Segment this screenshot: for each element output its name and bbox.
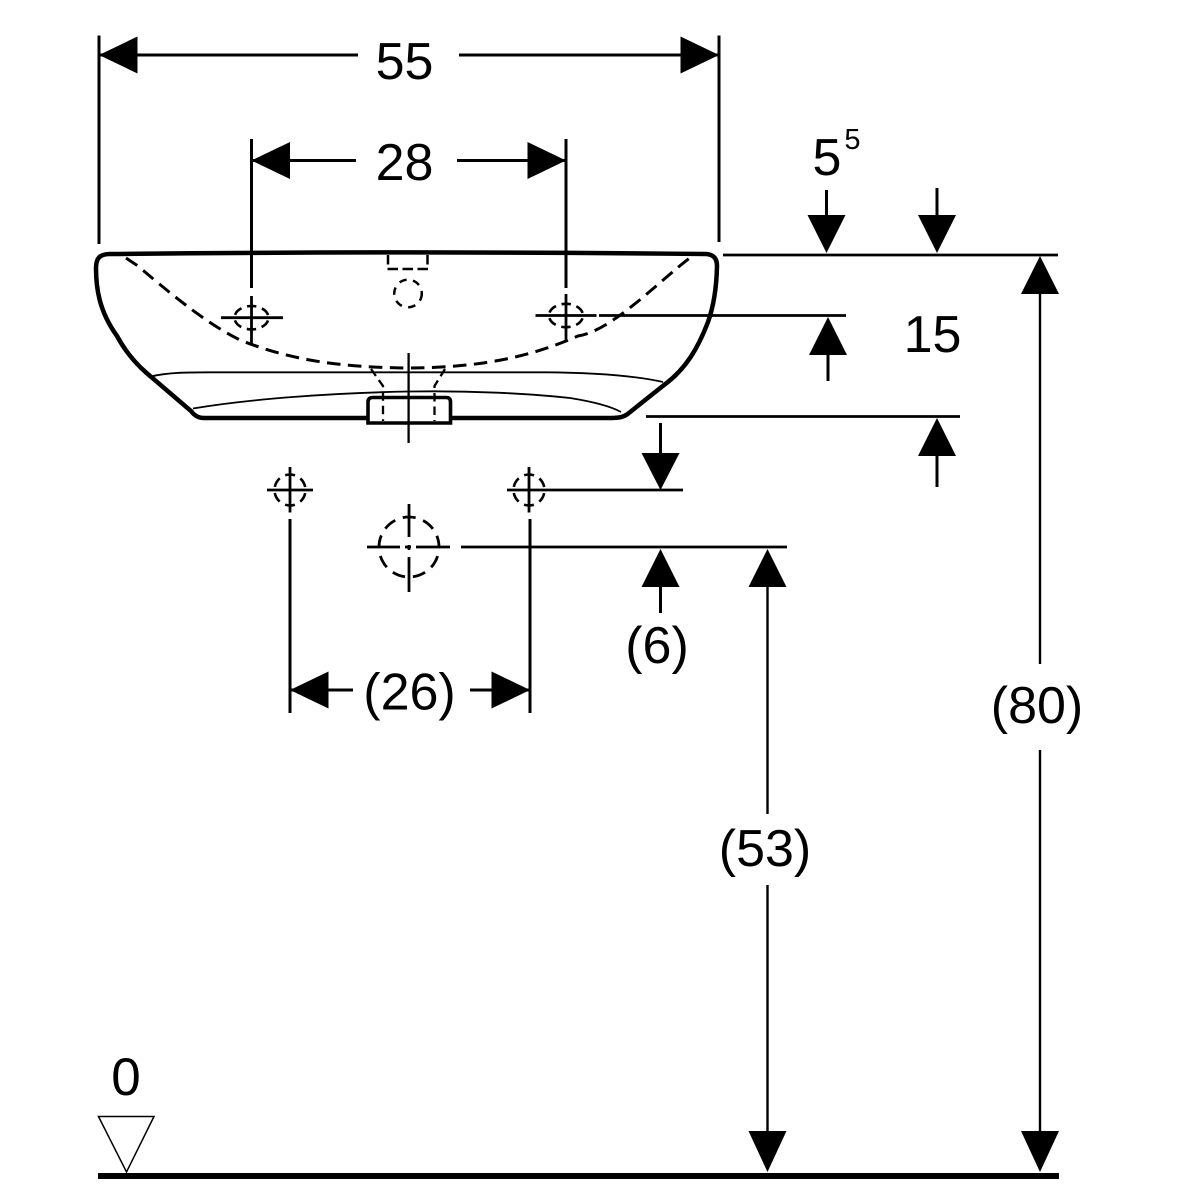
dimension 6 lower arrowhead pointing up at drain level [642, 549, 680, 587]
fixing hole cross right: dashed circle [514, 475, 545, 506]
drain outlet cross: horizontal centerline right segment [416, 546, 450, 549]
tap hole cross left: dashed ellipse [235, 306, 269, 329]
dimension 80 upper arrowhead pointing up at rim level [1021, 256, 1059, 294]
svg-text:15: 15 [904, 306, 962, 364]
svg-text:0: 0 [111, 1048, 140, 1107]
dimension 5.5 upper arrowhead pointing down at rim level [808, 215, 846, 253]
svg-text:(53): (53) [719, 820, 811, 878]
dimension 28 arrowhead left [252, 142, 291, 179]
drain outlet cross: vertical centerline top segment [408, 504, 411, 537]
washbasin outer outline [96, 252, 717, 418]
svg-text:(26): (26) [363, 664, 455, 722]
overflow slot left tick [387, 255, 390, 265]
overflow hole dashed circle [394, 280, 422, 308]
dimension 5.5 upper arrow stem [825, 190, 828, 216]
dimension 80 lower arrowhead pointing down at floor [1021, 1131, 1059, 1172]
dimension 26 right extension line [529, 519, 532, 713]
dimension 5.5 lower arrowhead pointing up at tap hole level [809, 317, 847, 355]
dimension 15 lower arrow stem [936, 456, 939, 487]
reference line drain level [461, 546, 787, 549]
drain funnel right dashed line [435, 369, 446, 421]
tap hole cross left: horizontal centerline [221, 316, 283, 319]
overflow slot dashed bottom line [388, 268, 430, 271]
drain outlet cross: horizontal centerline left segment [367, 546, 400, 549]
drain funnel left dashed line [371, 369, 383, 421]
datum zero symbol triangle [99, 1117, 155, 1173]
dimension 53 upper arrowhead pointing up at drain level [749, 549, 787, 587]
fixing hole cross right: vertical centerline [528, 467, 531, 513]
fixing hole cross left: horizontal centerline [267, 489, 313, 492]
tap hole cross right: vertical centerline [565, 294, 568, 342]
fixing hole cross left: dashed circle [275, 475, 306, 506]
dimension 55 line left segment [99, 54, 358, 57]
dimension 6 upper arrowhead pointing down at fixing hole level [642, 453, 680, 490]
dimension 26 line right segment [470, 689, 530, 692]
dimension 26 arrowhead right [492, 672, 531, 709]
basin front belly thin line [193, 391, 621, 412]
dimension 6 upper arrow stem [659, 423, 662, 456]
svg-text:(80): (80) [991, 677, 1083, 735]
drain outlet cross: vertical centerline bottom segment [408, 557, 411, 592]
dimension 26 arrowhead left [290, 672, 329, 709]
svg-text:28: 28 [376, 134, 434, 192]
svg-text:(6): (6) [625, 617, 689, 675]
reference line tap hole level [599, 314, 846, 317]
overflow slot right tick [426, 255, 429, 265]
dimension 15 upper arrow stem [936, 188, 939, 216]
dimension 5.5 lower arrow stem [827, 355, 830, 381]
tap hole cross right: horizontal centerline [536, 314, 597, 317]
dimension 55 left extension line [98, 36, 101, 245]
dimension 80 line lower segment [1039, 750, 1041, 1132]
dimension 53 lower arrowhead pointing down at floor [749, 1131, 787, 1172]
dimension 28 line left segment [252, 159, 357, 162]
drain boss white-filled rectangle [368, 398, 451, 424]
basin inner rim thin line [151, 372, 663, 382]
dimension 26 line left segment [290, 689, 353, 692]
dimension 55 arrowhead left [99, 37, 138, 74]
drain outlet cross: vertical centerline center dash [408, 545, 411, 550]
dimension 15 lower arrowhead pointing up at basin bottom level [918, 418, 956, 456]
drain outlet cross: horizontal centerline center dash [405, 546, 411, 549]
svg-text:55: 55 [376, 33, 434, 91]
bowl inner dashed curve [126, 257, 691, 368]
dimension 26 left extension line [289, 519, 292, 713]
dimension 53 line upper segment [766, 587, 768, 814]
tap hole cross right: dashed ellipse [549, 304, 583, 327]
dimension 53 line lower segment [766, 885, 768, 1132]
drain outlet cross: dashed circle [379, 517, 439, 577]
dimension 80 line upper segment [1039, 294, 1041, 664]
drain vertical centerline [407, 353, 409, 443]
reference line rim level [723, 254, 1058, 257]
dimension 55 line right segment [459, 54, 719, 57]
dimension 55 right extension line [718, 36, 721, 243]
dimension 28 left extension line [250, 139, 253, 288]
floor line [98, 1173, 1059, 1179]
reference line lower fixing hole level [507, 489, 683, 492]
dimension 15 upper arrowhead pointing down at rim level [918, 215, 956, 253]
dimension 28 right extension line [565, 139, 568, 288]
reference line basin bottom level [646, 415, 960, 418]
dimension 28 arrowhead right [528, 142, 567, 179]
svg-text:5: 5 [844, 124, 860, 156]
dimension 6 lower arrow stem [659, 587, 662, 613]
fixing hole cross left: vertical centerline [289, 467, 292, 513]
dimension 28 line right segment [457, 159, 566, 162]
dimension 55 arrowhead right [681, 37, 720, 74]
tap hole cross left: vertical centerline [250, 296, 253, 344]
svg-text:5: 5 [813, 129, 842, 187]
